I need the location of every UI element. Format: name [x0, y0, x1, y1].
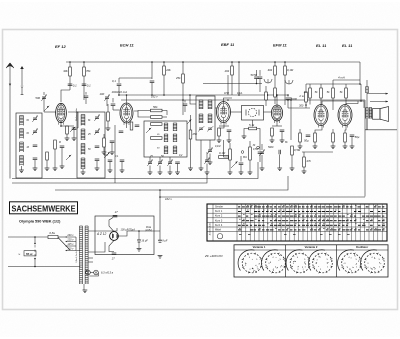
resistor osc r2: [151, 123, 163, 126]
svg-text:Wellenschalter: Wellenschalter: [75, 108, 78, 121]
wire B+ drop to PSU: [364, 100, 366, 197]
capacitor 50u 2: [350, 135, 360, 139]
wire: [303, 167, 305, 171]
svg-text:25k: 25k: [192, 132, 198, 136]
wire osc agc line: [238, 62, 240, 95]
svg-text:Sender: Sender: [215, 206, 223, 209]
label 16ka: [237, 92, 243, 95]
wire EF12 output: [68, 112, 78, 128]
junction: [287, 99, 289, 101]
RF coil X: [81, 158, 85, 169]
svg-text:Kurz 1: Kurz 1: [215, 210, 223, 213]
panel title Variante 2: [305, 245, 318, 249]
wire: [345, 84, 347, 88]
wire AZ12 bottom: [109, 240, 114, 251]
svg-text:5,1k: 5,1k: [249, 123, 255, 127]
wire: [219, 125, 229, 127]
capacitor tone: [279, 150, 281, 155]
tube socket diagram 4: [309, 250, 333, 274]
capacitor coupling EL: [286, 97, 298, 101]
aux aerial end bar: [21, 94, 24, 96]
wire: [259, 154, 261, 163]
svg-text:4: 4: [272, 257, 274, 259]
wire ECH cathode: [126, 123, 128, 128]
svg-text:Kurz 3: Kurz 3: [215, 219, 223, 222]
svg-text:3: 3: [293, 263, 295, 265]
capacitor AF c1: [239, 163, 244, 165]
wire anode to OT: [360, 84, 362, 101]
svg-text:0,5M: 0,5M: [253, 148, 258, 151]
resistor 70k EF12 screen: [83, 67, 91, 76]
rectifier tube AZ12: [110, 232, 119, 241]
wire: [259, 70, 261, 76]
table last row entries: [239, 234, 350, 236]
wire IFT2 in: [190, 95, 196, 104]
logo box: [10, 202, 78, 214]
wire: [83, 76, 85, 90]
resistor 5k c: [340, 88, 348, 98]
svg-text:5: 5: [304, 259, 306, 261]
transformer winding label: [76, 251, 78, 262]
table cell entries: [238, 205, 385, 230]
label 18v: [145, 229, 152, 232]
capacitor 0,1 EF12 anode: [68, 83, 77, 87]
wire: [184, 100, 186, 103]
svg-text:EL 11: EL 11: [342, 43, 353, 48]
wire ot down: [366, 119, 368, 130]
power rating box: [18, 251, 36, 257]
wire: [73, 130, 75, 139]
junction: [360, 100, 362, 102]
svg-text:16kA: 16kA: [237, 92, 243, 95]
terminal tick b: [386, 101, 388, 103]
junction: [126, 94, 128, 96]
capacitor AF c2: [258, 152, 263, 154]
junction: [276, 94, 278, 96]
label 162v psu: [165, 197, 172, 201]
svg-text:12: 12: [338, 207, 341, 209]
capacitor 50 ECH grid: [111, 104, 116, 106]
wire: [281, 132, 283, 141]
capacitor 50u 1: [304, 135, 310, 143]
trimmer tone pot: [259, 150, 265, 156]
svg-text:0,1M: 0,1M: [215, 145, 220, 148]
svg-text:3: 3: [268, 263, 270, 265]
trimmer osc 3: [167, 160, 173, 166]
junction: [69, 61, 71, 63]
ground IFT2 b: [208, 162, 213, 165]
IFT2 trimmer b: [207, 126, 213, 131]
wire: [332, 80, 334, 88]
capacitor EBF cath: [227, 130, 232, 132]
resistor osc r3: [151, 137, 163, 140]
ground ant box b: [33, 168, 38, 171]
svg-text:20k: 20k: [165, 68, 171, 72]
svg-text:EFM 11: EFM 11: [273, 43, 287, 48]
diode circle: [246, 108, 259, 116]
resistor EL cath 2: [332, 133, 335, 142]
svg-text:Mittel: Mittel: [215, 229, 221, 232]
ground EF12 cath b: [72, 138, 77, 141]
wire: [229, 160, 231, 172]
wire: [320, 98, 322, 105]
tube EFM11: [271, 105, 282, 123]
wire: [257, 129, 260, 147]
trimmer osc 1: [147, 160, 153, 166]
junction: [60, 125, 62, 127]
trimmer RF M: [94, 129, 100, 135]
panel separators: [234, 245, 388, 277]
wire: [218, 136, 220, 140]
wire: [46, 160, 48, 168]
svg-text:2: 2: [249, 269, 251, 271]
label 27 bottom: [111, 256, 115, 260]
capacitor 50 agc: [251, 73, 259, 79]
ground cap1: [137, 249, 142, 252]
ground tone b: [277, 168, 282, 171]
wire AF to EL grid: [288, 107, 310, 109]
resistor EL cath 2b: [344, 133, 347, 142]
wire EBF cathode: [223, 122, 225, 126]
ground EL a: [298, 146, 303, 149]
ground EBF a: [217, 140, 222, 143]
svg-text:1: 1: [356, 266, 358, 268]
wire: [121, 162, 123, 171]
ground aux a: [45, 168, 50, 171]
aux aerial arrow: [20, 66, 24, 69]
junction: [359, 83, 361, 85]
capacitor EFM cath: [280, 130, 285, 132]
ground IFT2 a: [199, 168, 204, 171]
wire: [66, 134, 68, 138]
ground ECH cath b: [110, 152, 115, 155]
wire: [279, 155, 281, 169]
electrolytic 8uF: [158, 239, 168, 242]
voltage tap 110 v: [66, 248, 76, 251]
ground sw a: [108, 170, 113, 173]
svg-text:0,2: 0,2: [179, 154, 183, 157]
ground: [248, 172, 253, 175]
svg-text:8k: 8k: [88, 120, 91, 122]
eye target arc a: [264, 79, 272, 83]
resistor 30k EF12 anode: [63, 67, 71, 76]
trimmer ant M: [32, 129, 38, 135]
wire: [274, 97, 276, 104]
socket panel outer box: [234, 245, 388, 277]
wire: [305, 84, 307, 92]
wire switch bottom: [34, 259, 36, 267]
osc coil A2: [164, 134, 168, 142]
svg-text:0,1: 0,1: [87, 83, 91, 87]
svg-text:40k: 40k: [268, 68, 273, 72]
svg-text:8k: 8k: [285, 141, 288, 144]
svg-text:0,1: 0,1: [115, 155, 119, 158]
wire: [107, 104, 109, 112]
wire terminal b: [370, 101, 388, 103]
power transformer secondary: [85, 226, 88, 284]
svg-text:≈: ≈: [18, 253, 20, 257]
tube EBF11: [217, 102, 231, 125]
wire: [314, 142, 316, 146]
ground EFM b: [280, 140, 285, 143]
junction: [189, 94, 191, 96]
wire EBF grid: [215, 107, 217, 109]
wire: [96, 161, 98, 168]
wire: [228, 132, 230, 141]
svg-text:Olympia 590 WBK (1/2): Olympia 590 WBK (1/2): [19, 219, 61, 223]
label 50 osc: [157, 148, 160, 150]
wire: [85, 92, 87, 95]
aux aerial lead: [21, 88, 23, 95]
jack circle b: [257, 146, 260, 149]
resistor 0,3M eye: [274, 88, 277, 97]
wire: [85, 98, 87, 104]
tube socket diagram 1: [238, 250, 262, 274]
trimmer IFT2 c: [207, 148, 213, 154]
wire: [274, 75, 276, 88]
table row label Sender: [215, 206, 223, 209]
trimmer antenna 500: [35, 95, 46, 101]
tube ECH11 triode-hexode: [120, 103, 133, 125]
label 861: [243, 157, 248, 159]
svg-text:2: 2: [273, 269, 275, 271]
tube label EFM 11: [273, 43, 287, 48]
svg-text:861: 861: [243, 157, 248, 159]
wire: [249, 141, 251, 147]
svg-text:ZF +468 kHz: ZF +468 kHz: [204, 254, 223, 258]
junction: [163, 94, 165, 96]
wire: [163, 62, 165, 66]
wire EF12 screen feed: [83, 62, 85, 67]
antenna coil box: [16, 113, 42, 178]
svg-text:100: 100: [100, 92, 105, 96]
wire: [103, 147, 105, 152]
svg-text:1: 1: [379, 266, 381, 268]
wire: [151, 83, 153, 96]
wire screen rail EL: [306, 83, 360, 85]
table row label Kurz 4: [215, 224, 223, 227]
antenna down tick: [9, 84, 11, 86]
osc coil B2: [173, 134, 177, 142]
rectifier box: [95, 216, 154, 255]
subtitle Olympia 590 WBK (1/2): [19, 219, 61, 223]
svg-text:0,1M: 0,1M: [287, 68, 294, 72]
logo text: [12, 205, 77, 214]
wire 4mA link: [333, 79, 360, 81]
secondary tap y: [88, 261, 93, 263]
wave switch arrow a: [70, 127, 75, 132]
wire EFM anode: [276, 95, 278, 105]
RF coil box: [77, 112, 105, 178]
wire: [271, 136, 273, 140]
svg-text:5: 5: [256, 259, 258, 261]
label jpw: [224, 93, 230, 95]
panel title Variante 1: [253, 245, 266, 249]
wire: [219, 126, 224, 128]
svg-text:100 µF/70µA: 100 µF/70µA: [121, 229, 136, 232]
wire: [261, 144, 263, 150]
svg-text:0,1: 0,1: [112, 79, 116, 83]
table row label Mittel: [215, 229, 221, 232]
rectifier output: [118, 231, 160, 236]
resistor 47k feedback: [303, 157, 312, 167]
capacitor 50 eye: [254, 73, 262, 79]
svg-text:220 v: 220 v: [66, 239, 74, 242]
tube EL11 no2: [338, 105, 352, 128]
ground det: [242, 136, 247, 139]
wire EL1 anode: [322, 101, 361, 105]
wire: [351, 137, 353, 147]
resistor det load: [229, 149, 232, 160]
resistor EL cath 1b: [314, 133, 317, 142]
panel title Oszillator: [356, 245, 368, 249]
wire: [240, 156, 242, 162]
svg-text:50µ: 50µ: [304, 139, 309, 143]
trimmer RF K: [94, 115, 100, 121]
ground EL b: [313, 146, 318, 149]
IFT2 coil b: [199, 114, 203, 123]
antenna arrowhead: [6, 63, 14, 68]
svg-text:5k: 5k: [315, 90, 319, 94]
wire: [61, 125, 74, 127]
table row label Kurz 2: [215, 215, 223, 218]
resistor 0,1M EFM: [284, 66, 294, 75]
junction: [267, 94, 269, 96]
wire EFM feed a: [274, 62, 276, 66]
wire EBF anode feed: [231, 62, 233, 66]
svg-text:160/222 mA: 160/222 mA: [112, 90, 128, 94]
wire: [224, 98, 233, 102]
osc coil A3: [164, 146, 168, 154]
wire EBF anode: [227, 75, 229, 95]
svg-text:Kurz 4: Kurz 4: [215, 224, 223, 227]
wire: [256, 70, 258, 76]
wire diode link: [231, 111, 242, 113]
bus wire B+ feed: [160, 196, 365, 198]
wire: [149, 166, 151, 173]
label 8k a: [27, 120, 30, 122]
wire: [109, 162, 111, 171]
resistor 20k EBF11: [224, 66, 234, 75]
capacitor RF top: [84, 96, 89, 98]
ground cap2: [158, 256, 163, 259]
svg-text:4: 4: [297, 257, 299, 259]
wire: [244, 129, 249, 137]
ground osc c: [168, 172, 173, 175]
heater tap a: [86, 269, 88, 272]
svg-text:1: 1: [304, 266, 306, 268]
svg-text:27: 27: [111, 256, 115, 260]
ground bias: [53, 168, 58, 171]
wire: [177, 164, 179, 173]
svg-text:8k: 8k: [27, 120, 30, 122]
svg-text:30: 30: [253, 145, 256, 147]
resistor 1M osc: [151, 116, 163, 119]
junction: [151, 61, 153, 63]
wire AVC down: [224, 140, 229, 157]
svg-text:5000: 5000: [268, 146, 274, 149]
capacitor EF12 k: [60, 146, 65, 148]
label 5000 j: [268, 146, 274, 149]
wire: [287, 95, 289, 97]
ground EL e: [350, 146, 355, 149]
wire: [21, 166, 23, 170]
wire: [291, 155, 293, 168]
junction: [290, 99, 292, 101]
resistor eye b: [265, 92, 268, 100]
ground osc d: [175, 172, 180, 175]
svg-text:1: 1: [256, 266, 258, 268]
svg-text:2 w: 2 w: [298, 94, 304, 98]
diode box: [242, 106, 264, 121]
junction: [151, 94, 153, 96]
wire: [345, 98, 347, 105]
svg-text:(418v): (418v): [145, 229, 152, 232]
svg-text:Oszillator: Oszillator: [356, 245, 368, 249]
capacitor ant L: [33, 145, 38, 147]
svg-text:500: 500: [35, 96, 40, 100]
wire: [303, 152, 305, 157]
capacitor sw b: [120, 160, 125, 162]
svg-text:162 v: 162 v: [165, 197, 172, 201]
junction 300: [305, 104, 307, 106]
wire: [332, 142, 334, 146]
wire: [58, 236, 66, 238]
resistor 0,5M AF: [291, 146, 301, 155]
svg-text:8 µF: 8 µF: [162, 239, 168, 242]
capacitor 27 top: [113, 215, 118, 217]
label 162 v: [151, 94, 158, 98]
ground osc a: [148, 172, 153, 175]
svg-text:2: 2: [248, 207, 250, 209]
antenna coil X: [20, 156, 24, 166]
ground osc e: [188, 168, 193, 171]
ground ECH cath a: [102, 152, 107, 155]
svg-text:0,1: 0,1: [73, 83, 77, 87]
junction: [159, 189, 161, 191]
resistor 1w grid: [304, 88, 312, 98]
wire osc right: [190, 115, 192, 168]
wire grid EF12: [44, 111, 56, 113]
wire: [54, 149, 56, 168]
svg-text:20k: 20k: [224, 69, 230, 73]
wire: [107, 121, 109, 128]
wire: [299, 129, 301, 133]
ground: [205, 172, 210, 175]
svg-text:13: 13: [347, 207, 350, 209]
wire: [240, 165, 242, 173]
bus wire AVC: [12, 162, 258, 179]
wire: [284, 75, 286, 105]
wire: [320, 84, 322, 88]
svg-text:EL 11: EL 11: [316, 43, 327, 48]
junction: [182, 61, 184, 63]
svg-text:5k: 5k: [327, 90, 331, 94]
voltage tap 220 v: [66, 239, 76, 242]
junction: [238, 94, 240, 96]
svg-text:0,8w 6,3v 4v: 0,8w 6,3v 4v: [76, 251, 78, 262]
svg-text:5: 5: [356, 259, 358, 261]
IFT2 coil d: [208, 114, 212, 123]
ground ECH grid: [106, 128, 111, 131]
resistor 40k EFM: [268, 66, 277, 75]
wire AZ12 top cap: [109, 218, 114, 232]
antenna lead-in: [9, 65, 11, 179]
svg-text:25: 25: [87, 134, 91, 136]
wire: [259, 79, 261, 93]
ground osc b: [158, 172, 163, 175]
osc switch arrow b: [187, 120, 191, 124]
